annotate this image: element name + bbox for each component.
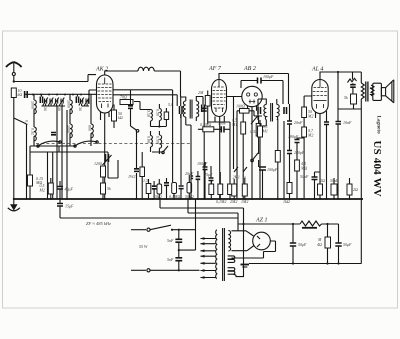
- resistor 50k: [112, 110, 117, 121]
- cap near AL4: [324, 122, 329, 125]
- svg-text:30: 30: [78, 107, 82, 111]
- svg-text:1W2: 1W2: [128, 174, 135, 179]
- svg-text:AZ 1: AZ 1: [255, 218, 268, 224]
- tuning gang dashed link: [36, 143, 190, 145]
- resistor JW1: [120, 100, 133, 105]
- resistor 5k: [101, 183, 106, 194]
- resistor 1200: [101, 166, 106, 177]
- svg-text:AK 2: AK 2: [95, 67, 108, 73]
- tuner vertical wires: [34, 94, 91, 146]
- AK2 grid line left: [89, 90, 97, 104]
- long verticals: [173, 90, 181, 185]
- svg-text:2Ω: 2Ω: [353, 187, 358, 192]
- coil top (osc): [138, 67, 154, 71]
- svg-text:2M2: 2M2: [230, 199, 237, 204]
- sub lines under bus: [160, 208, 244, 213]
- mains bottom line: [131, 269, 146, 271]
- svg-text:30: 30: [43, 107, 47, 111]
- svg-text:50μF: 50μF: [300, 174, 309, 179]
- osc resistor 50k: [164, 112, 168, 120]
- svg-text:5kΩ: 5kΩ: [155, 194, 162, 199]
- svg-text:1000: 1000: [31, 101, 35, 109]
- svg-text:55 W: 55 W: [139, 244, 148, 249]
- coil L1b: [34, 127, 36, 141]
- antenna: [6, 62, 22, 82]
- svg-text:kΩ: kΩ: [18, 92, 23, 97]
- svg-text:25μF: 25μF: [204, 172, 213, 177]
- AL4 bottom caps: [312, 177, 318, 180]
- coil L1a: [34, 100, 36, 114]
- AK2 top wire to osc coil: [105, 71, 138, 75]
- svg-text:50μF: 50μF: [298, 242, 307, 247]
- svg-text:100Ω: 100Ω: [236, 104, 245, 109]
- AF7 top wire: [219, 74, 289, 105]
- svg-text:50μF: 50μF: [343, 242, 352, 247]
- right vertical down: [360, 109, 362, 264]
- resistor ant series: [11, 88, 16, 98]
- coil L2b: [70, 124, 72, 138]
- svg-text:2M: 2M: [198, 90, 204, 95]
- AB2 wires: [227, 97, 257, 200]
- svg-text:15μF: 15μF: [65, 204, 74, 209]
- svg-text:1kΩ: 1kΩ: [283, 199, 290, 204]
- svg-text:7a: 7a: [242, 175, 246, 180]
- svg-text:0,56: 0,56: [156, 109, 160, 116]
- svg-text:30: 30: [57, 107, 61, 111]
- filter resistor zigzag: [300, 221, 322, 226]
- cap 100uF top: [258, 78, 262, 84]
- trimmer cap row 1: [40, 97, 89, 106]
- cap 50pF tuner: [51, 133, 56, 135]
- wave switch arcs: [30, 141, 98, 147]
- svg-text:0,88: 0,88: [147, 136, 151, 143]
- osc coil leads: [134, 102, 166, 155]
- resistor 0.5M horizontal: [203, 127, 214, 132]
- cap 50nF left: [57, 187, 63, 190]
- svg-text:M2: M2: [39, 188, 45, 193]
- svg-text:5nF: 5nF: [167, 257, 174, 262]
- svg-text:600: 600: [88, 125, 92, 131]
- filter mid link: [179, 199, 196, 250]
- bottom line: [249, 263, 362, 265]
- svg-text:ZF ≈ 485 kHz: ZF ≈ 485 kHz: [86, 221, 111, 226]
- svg-text:1M2: 1M2: [241, 199, 248, 204]
- cap osc grid: [128, 106, 133, 109]
- svg-text:10nF: 10nF: [343, 120, 352, 125]
- svg-text:1200: 1200: [94, 161, 102, 166]
- secondary HT winding: [228, 231, 230, 252]
- svg-text:0,50: 0,50: [156, 136, 160, 143]
- svg-text:0.5M: 0.5M: [250, 129, 259, 134]
- svg-text:100μF: 100μF: [263, 74, 274, 79]
- trimmer cathode: [103, 154, 112, 165]
- svg-text:100pF: 100pF: [197, 161, 208, 166]
- svg-text:US 404 WV: US 404 WV: [371, 141, 383, 198]
- svg-text:5k: 5k: [107, 186, 111, 191]
- svg-text:5k: 5k: [344, 95, 348, 100]
- svg-text:M2: M2: [307, 114, 313, 119]
- mid column A: [287, 121, 292, 124]
- AL4 top wire: [320, 72, 361, 80]
- svg-text:kΩ: kΩ: [118, 115, 123, 120]
- svg-text:2Ω: 2Ω: [320, 178, 325, 183]
- AF7 left components: [205, 96, 210, 107]
- tuner lower links: [30, 146, 108, 199]
- AL4 left components: [302, 107, 307, 118]
- wire antenna down: [14, 98, 27, 200]
- svg-text:Lagneto: Lagneto: [376, 116, 382, 135]
- svg-text:0,2: 0,2: [25, 120, 29, 125]
- tone loop (fuse, cap, box): [337, 72, 339, 79]
- svg-text:20nF: 20nF: [294, 120, 303, 125]
- transformer core: [223, 228, 225, 281]
- osc coil A: [151, 110, 153, 121]
- bottom row caps/resistors: [146, 184, 151, 194]
- transformer primary winding: [216, 230, 217, 279]
- power transformer taps: [200, 237, 216, 279]
- AF7 lower components: [203, 167, 208, 170]
- secondary rect-filament winding: [228, 265, 244, 277]
- tube AF7: [212, 80, 227, 117]
- AVC resistor: [275, 151, 280, 163]
- svg-text:20μF: 20μF: [185, 171, 194, 176]
- resistor 0.15M left: [28, 175, 33, 186]
- svg-text:4Ω: 4Ω: [317, 242, 322, 247]
- cap 50nF below bus: [57, 204, 63, 207]
- svg-text:0,32: 0,32: [31, 128, 35, 135]
- mains top line with switch: [131, 229, 146, 231]
- svg-text:M1: M1: [231, 122, 237, 127]
- ground bus: [13, 198, 363, 200]
- IF transformer T1: [183, 100, 198, 119]
- left AZ1 vertical: [243, 224, 245, 264]
- svg-text:1000: 1000: [67, 100, 71, 108]
- filter caps / resistor: [292, 224, 294, 243]
- mid column B: [295, 140, 300, 143]
- tube AB2: [242, 86, 262, 106]
- ground symbol: [8, 199, 20, 211]
- heater line: [60, 217, 238, 219]
- B+ line: [238, 223, 300, 225]
- resistor 0.15M 2: [48, 183, 53, 194]
- antenna feed wire: [14, 75, 96, 82]
- svg-text:3,18: 3,18: [147, 110, 151, 117]
- svg-text:70Ω: 70Ω: [120, 95, 127, 100]
- coil L2a: [70, 100, 72, 114]
- T1 caps: [180, 106, 183, 114]
- speaker: [370, 80, 394, 103]
- svg-text:5nF: 5nF: [167, 238, 174, 243]
- svg-text:AF 7: AF 7: [208, 66, 222, 72]
- output transformer: [361, 72, 374, 109]
- tube AZ1: [253, 232, 271, 250]
- osc coil B: [159, 109, 161, 121]
- svg-text:M2: M2: [307, 133, 313, 138]
- coil L3: [91, 124, 93, 138]
- tuner top bus: [24, 94, 177, 106]
- tube AL4: [312, 80, 328, 114]
- AB2 components below: [241, 122, 246, 134]
- resistor below T2: [258, 126, 263, 137]
- svg-text:2M1: 2M1: [233, 175, 240, 180]
- AZ1 wires: [232, 231, 255, 251]
- IF transformer T2: [264, 103, 279, 122]
- AK2 right components: [113, 89, 173, 91]
- svg-text:100μF: 100μF: [267, 167, 278, 172]
- osc switch 2: [163, 146, 168, 152]
- secondary heater winding: [228, 256, 235, 263]
- cap 10n: [221, 126, 224, 132]
- svg-text:AB 2: AB 2: [243, 66, 256, 72]
- tube AK2: [97, 75, 114, 113]
- svg-text:240pF: 240pF: [294, 150, 305, 155]
- svg-text:40μF: 40μF: [65, 187, 74, 192]
- 5nF caps: [178, 230, 180, 239]
- cap 10nF right: [336, 122, 342, 125]
